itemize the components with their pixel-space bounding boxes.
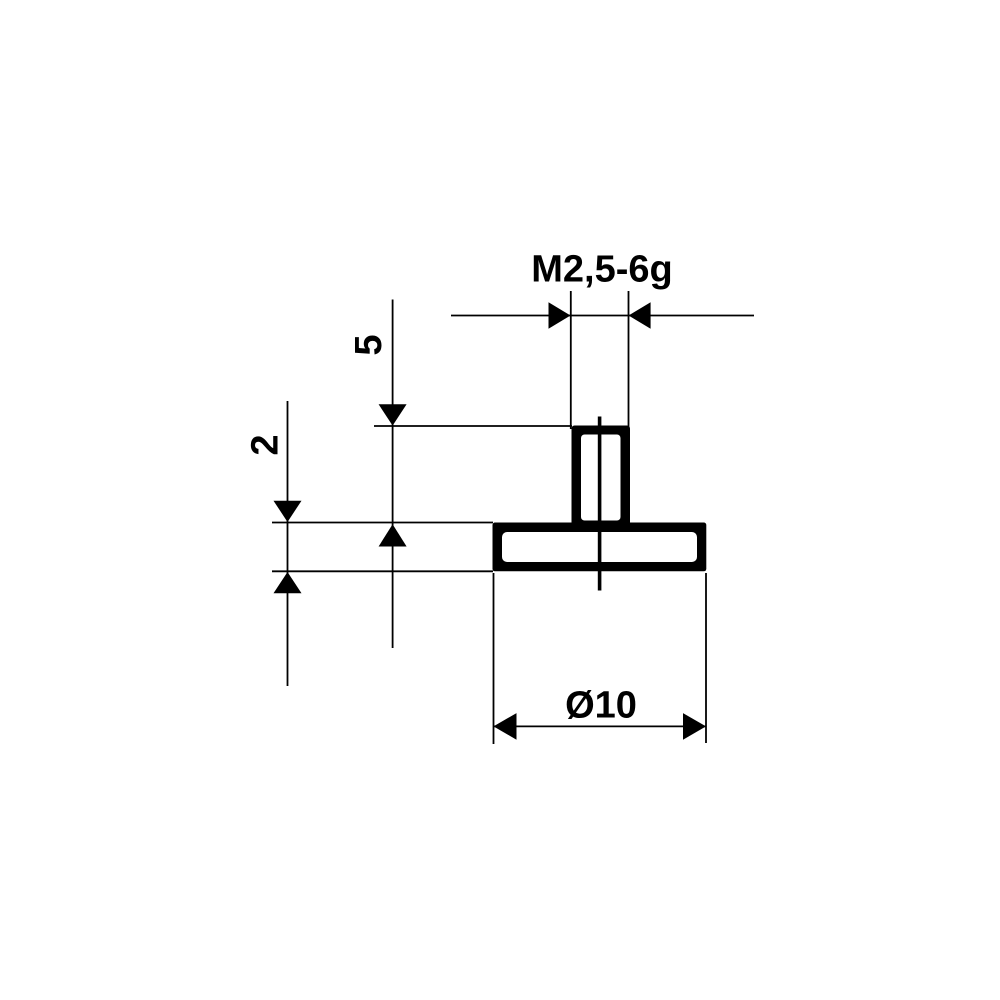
arrow 5 up (379, 524, 407, 546)
top of stud reference line (374, 425, 572, 427)
extension line diameter left (493, 573, 495, 744)
top of disc reference line (272, 522, 493, 524)
threaded stud bore (white inner) (581, 435, 621, 521)
arrow 2 up (274, 572, 302, 593)
arrow 2 down (274, 501, 302, 522)
arrow thread right (629, 302, 651, 329)
svg-text:M2,5-6g: M2,5-6g (531, 249, 672, 291)
bottom of disc reference line (272, 570, 493, 572)
dimension line diameter 10 (494, 725, 707, 727)
arrow diameter left (494, 713, 517, 740)
extension line diameter right (705, 573, 707, 743)
dimension line M2,5-6g (451, 315, 754, 317)
disc outline (493, 523, 707, 572)
extension line right thread (628, 291, 630, 429)
dimension line 5 (392, 300, 394, 649)
arrow thread left (549, 302, 571, 329)
disc inner face (white inner) (502, 532, 697, 562)
centerline (598, 417, 602, 591)
arrow diameter right (683, 713, 706, 740)
arrow 5 down (379, 404, 407, 425)
svg-text:5: 5 (348, 334, 390, 355)
svg-text:Ø10: Ø10 (565, 684, 637, 726)
extension line left thread (570, 291, 572, 429)
svg-text:2: 2 (245, 434, 287, 455)
dimension line 2 (287, 401, 289, 686)
threaded stud outline (572, 426, 631, 533)
